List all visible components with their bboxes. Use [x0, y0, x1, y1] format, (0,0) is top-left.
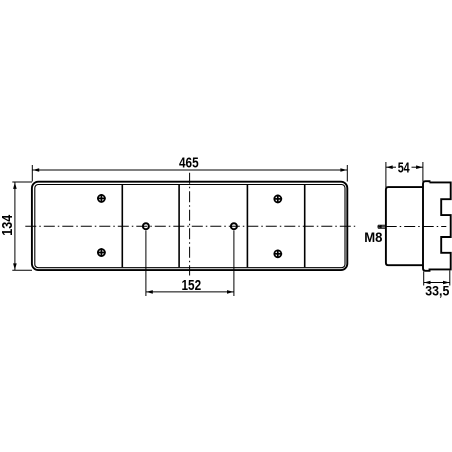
- dimension 54: right extension line: [422, 162, 424, 182]
- lens divider line 1: [121, 185, 123, 268]
- dimension 54: dim line left segment with arrow: [386, 166, 396, 168]
- front view outer housing outline: [32, 182, 347, 270]
- svg-text:134: 134: [0, 215, 16, 236]
- screw head symbol bottom-right: [274, 250, 283, 259]
- dimension 465: dimension line: [32, 169, 347, 171]
- mounting hole left: [143, 223, 149, 229]
- dimension 465: left arrowhead: [33, 168, 40, 172]
- dimension 134: dimension line: [14, 182, 16, 270]
- dimension 152: right arrowhead: [227, 290, 234, 294]
- mounting hole right: [231, 223, 237, 229]
- dimension 134: bottom extension line: [12, 269, 32, 271]
- dimension 152: right extension line: [233, 231, 235, 297]
- dimension 465: right extension line: [346, 165, 348, 182]
- lens divider line 2: [178, 185, 180, 268]
- svg-text:465: 465: [179, 154, 199, 171]
- dimension 465: right arrowhead: [340, 168, 347, 172]
- screw head symbol bottom-left: [97, 248, 106, 257]
- dimension 134: top arrowhead: [13, 182, 17, 189]
- dimension 134: top extension line: [12, 181, 32, 183]
- side view lens profile with flange bumps: [423, 181, 451, 271]
- horizontal centerline (front view): [25, 225, 355, 227]
- M8 stud: [378, 225, 386, 228]
- dimension 152: dimension line: [146, 291, 234, 293]
- horizontal centerline (side view): [386, 226, 447, 228]
- dimension 33,5: right extension line: [449, 271, 451, 286]
- svg-text:33,5: 33,5: [425, 282, 449, 298]
- screw head symbol top-right: [274, 195, 283, 204]
- dimension 33,5: left arrowhead: [424, 281, 431, 285]
- svg-text:152: 152: [182, 277, 202, 294]
- front view inner lens frame outline: [35, 185, 345, 268]
- svg-text:54: 54: [398, 159, 410, 176]
- lens divider line 4: [304, 185, 306, 268]
- dimension 33,5: dimension line: [424, 282, 450, 284]
- dimension 134: bottom arrowhead: [13, 263, 17, 270]
- stud centerline segment: [382, 226, 387, 228]
- dimension 152: left arrowhead: [146, 290, 153, 294]
- dimension 152: left extension line: [145, 231, 147, 297]
- dimension 54: dim line right segment with arrow: [412, 166, 423, 168]
- vertical centerline: [189, 173, 191, 276]
- dimension 33,5: right arrowhead: [443, 281, 450, 285]
- lens divider line 3: [246, 185, 248, 268]
- M8 stud arrowhead: [377, 225, 382, 228]
- svg-text:M8: M8: [364, 230, 383, 245]
- dimension 33,5: left extension line: [423, 272, 425, 286]
- side view housing body: [386, 187, 423, 265]
- screw head symbol top-left: [97, 194, 106, 203]
- dimension 465: left extension line: [31, 165, 33, 182]
- dimension 54: left extension line: [385, 162, 387, 188]
